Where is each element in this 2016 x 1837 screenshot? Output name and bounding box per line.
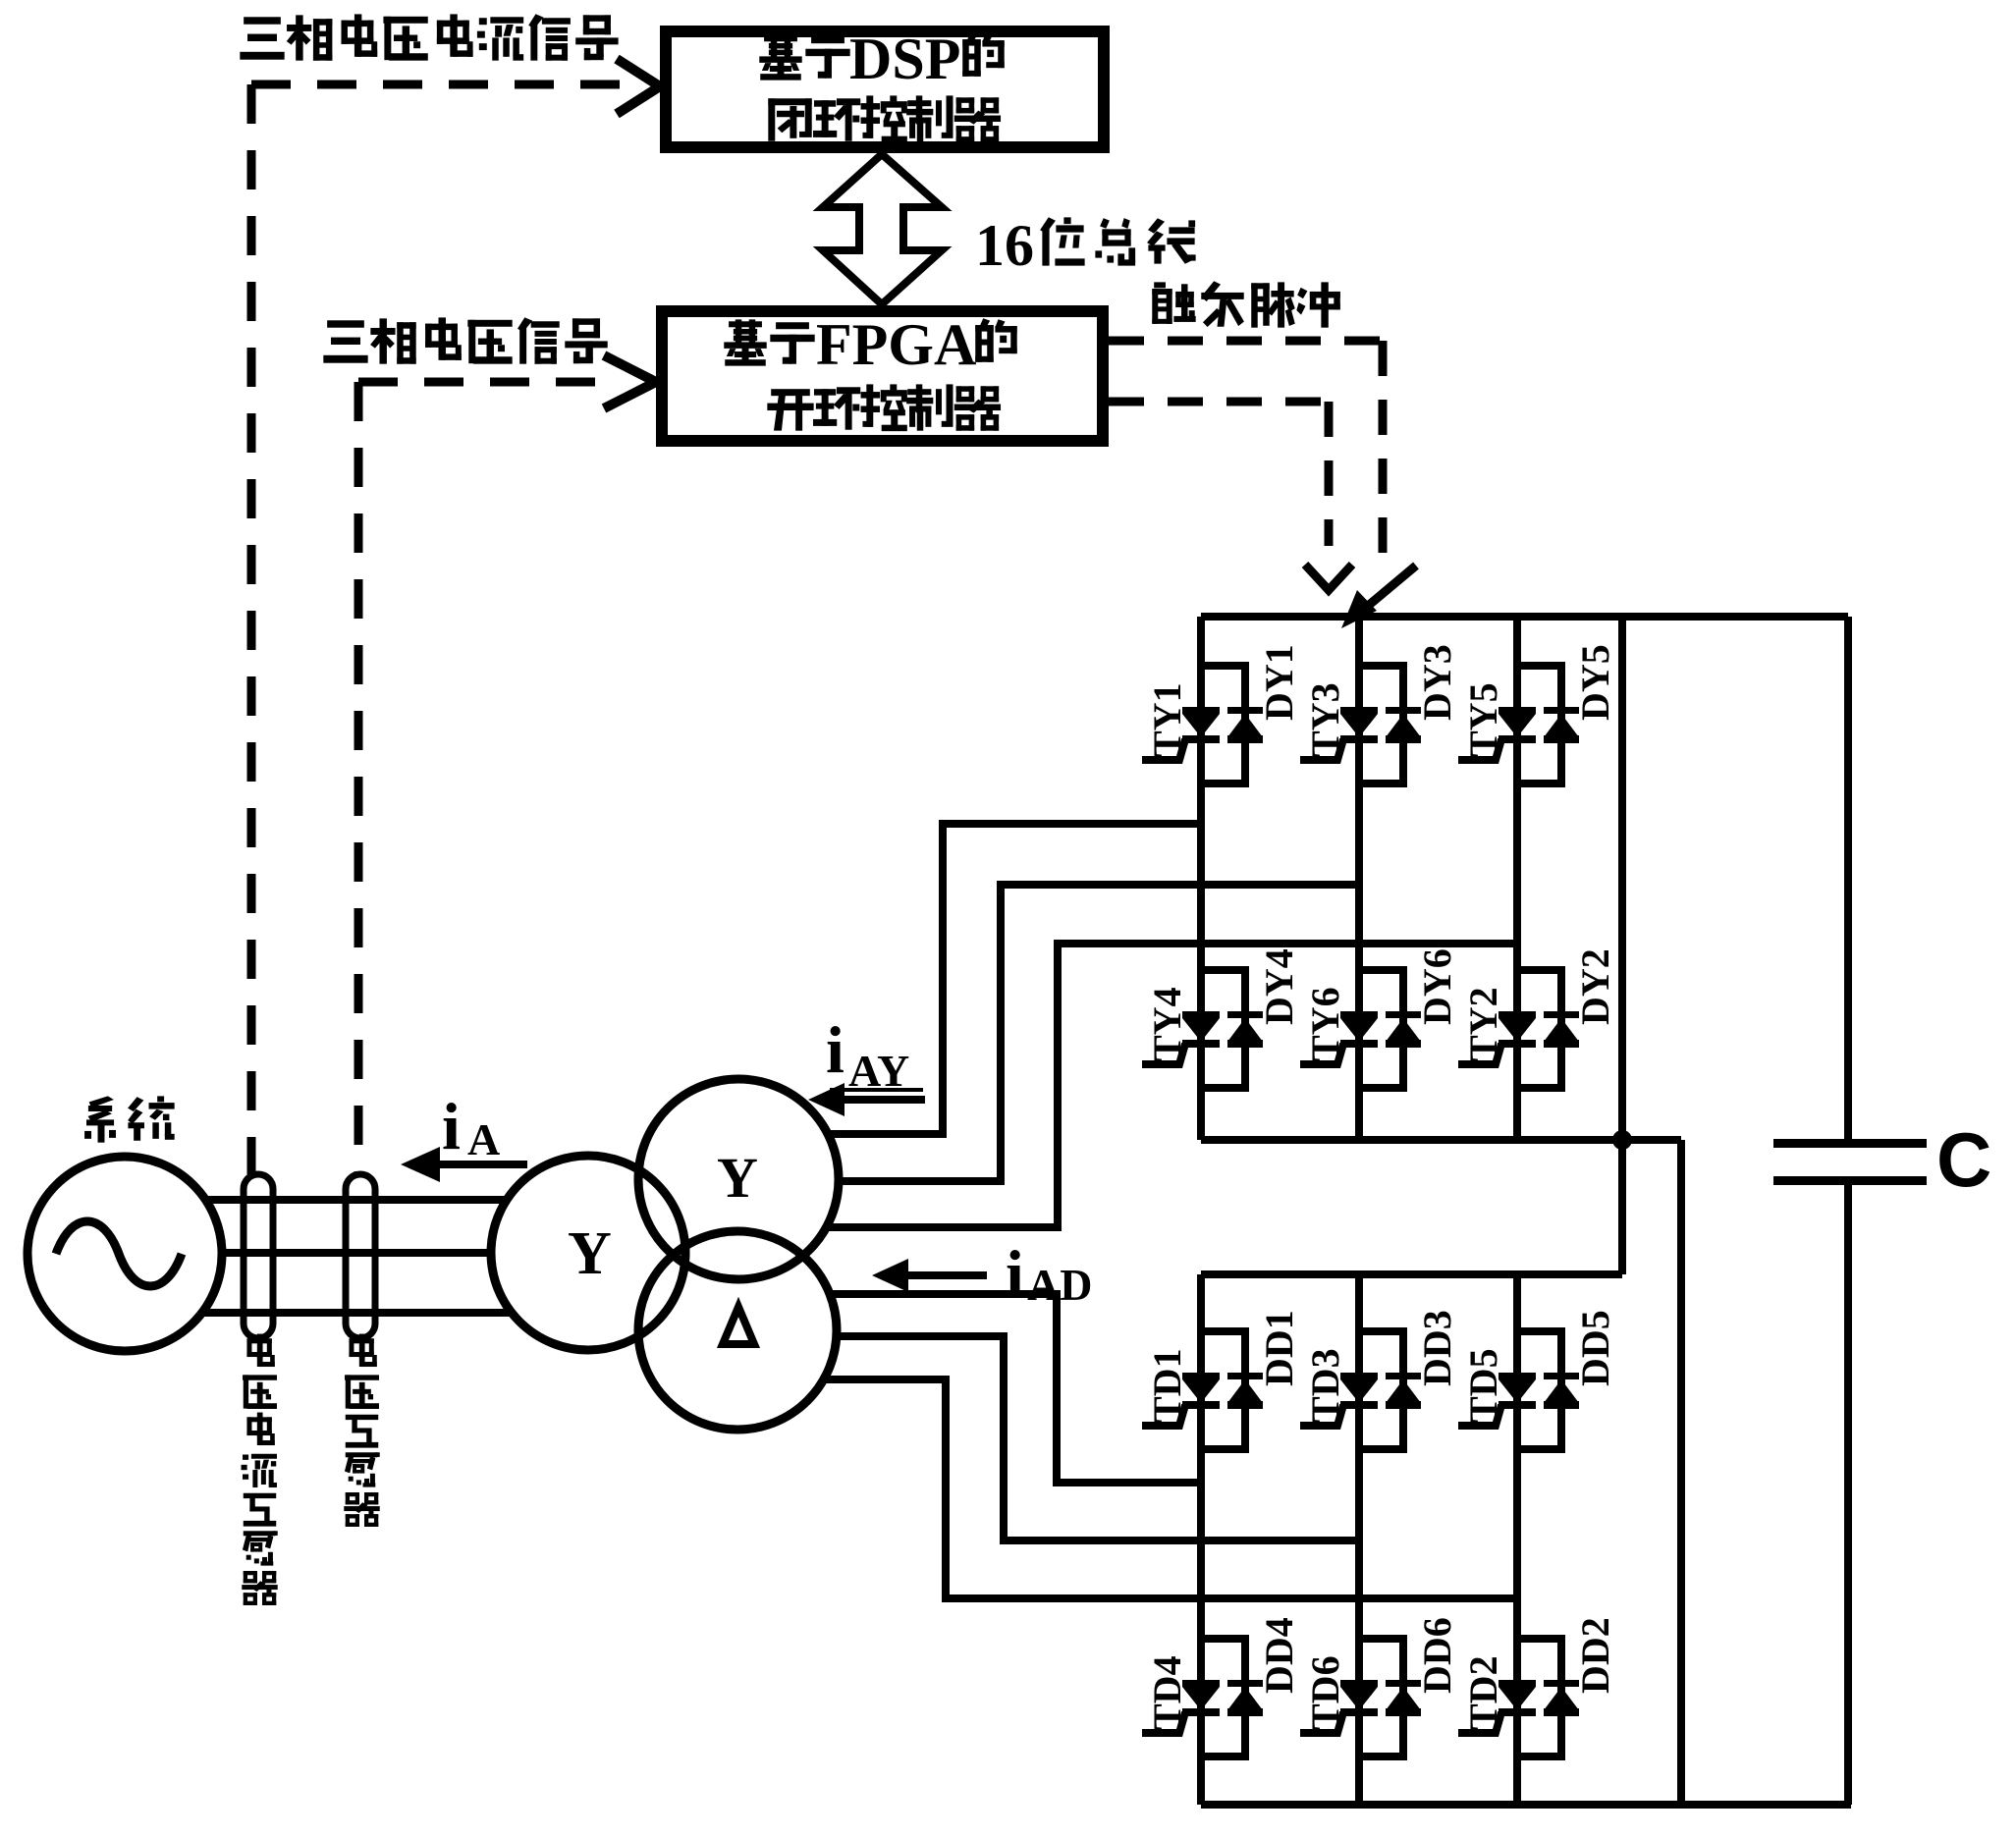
capacitor C top plate — [1773, 1139, 1927, 1148]
AC source circle — [27, 1157, 222, 1351]
arrowhead into DSP box — [617, 59, 660, 114]
label: three-phase voltage-current signal 三相电压电流信号 — [241, 15, 618, 60]
thyristor TY5 — [1458, 707, 1536, 760]
wire: phase line 1 — [205, 1196, 510, 1204]
thyristor TD4 — [1142, 1680, 1220, 1733]
svg-text:DD1: DD1 — [1257, 1310, 1301, 1386]
diode DY6 — [1386, 1011, 1421, 1048]
thyristor TY6 — [1300, 1011, 1378, 1064]
wire: antiparallel branch of TY6/DY6 — [1359, 970, 1403, 1088]
svg-text:DD4: DD4 — [1257, 1617, 1301, 1694]
svg-text:TY6: TY6 — [1303, 987, 1347, 1061]
svg-text:TD2: TD2 — [1461, 1655, 1505, 1730]
diode DY3 — [1386, 707, 1421, 743]
svg-text:AD: AD — [1027, 1260, 1092, 1310]
svg-text:DD5: DD5 — [1573, 1310, 1617, 1386]
arrowhead into FPGA box — [604, 355, 656, 408]
wire: phase A from Y winding to Y-bridge leg A — [828, 824, 1201, 1134]
svg-text:DY6: DY6 — [1415, 948, 1459, 1025]
label: 电压互感器 vertical — [345, 1334, 380, 1527]
node: junction Y-bottom bus — [1612, 1130, 1632, 1150]
wire: antiparallel branch of TD5/DD5 — [1517, 1331, 1561, 1449]
wire: phase A from delta winding to D-bridge leg A — [830, 1294, 1201, 1483]
svg-text:DD3: DD3 — [1415, 1310, 1459, 1386]
label: trigger pulse 触发脉冲 — [1153, 282, 1339, 327]
svg-text:DD6: DD6 — [1415, 1617, 1459, 1694]
bus: 16-bit bus double arrow between DSP and FPGA — [823, 154, 942, 304]
arrow iAD — [906, 1271, 987, 1279]
svg-text:C: C — [1936, 1116, 1991, 1203]
label: three-phase voltage signal 三相电压信号 — [324, 318, 607, 363]
svg-text:TY3: TY3 — [1303, 682, 1347, 757]
wire: D-bridge leg B vertical — [1355, 1274, 1363, 1805]
diode DD1 — [1227, 1373, 1263, 1409]
diode DY4 — [1227, 1011, 1263, 1048]
arrow iA — [440, 1161, 527, 1168]
svg-text:i: i — [826, 1012, 845, 1087]
transformer secondary winding Y — [638, 1079, 839, 1279]
wire: Y-bridge bottom bus — [1201, 1136, 1681, 1144]
arrowhead trigger left — [1305, 565, 1352, 590]
diode DD3 — [1386, 1373, 1421, 1409]
voltage-current instrument transformer (capsule) — [244, 1174, 273, 1338]
wire dashed: trigger pulse upper — [1109, 341, 1383, 558]
transformer primary winding Y — [491, 1156, 685, 1350]
wire: phase line 2 — [222, 1249, 493, 1257]
wire: antiparallel branch of TY1/DY1 — [1201, 666, 1245, 783]
svg-text:TY5: TY5 — [1461, 682, 1505, 757]
wire: capacitor bottom feed — [1844, 1185, 1852, 1805]
wire: antiparallel branch of TD1/DD1 — [1201, 1331, 1245, 1449]
wire: D-bridge top bus — [1201, 1270, 1622, 1278]
wire: phase line 3 — [203, 1309, 513, 1317]
svg-text:DY5: DY5 — [1573, 644, 1617, 721]
voltage instrument transformer (capsule) — [346, 1174, 375, 1338]
thyristor TD3 — [1300, 1373, 1378, 1426]
thyristor TY1 — [1142, 707, 1220, 760]
wire: antiparallel branch of TD3/DD3 — [1359, 1331, 1403, 1449]
thyristor TD1 — [1142, 1373, 1220, 1426]
wire: Y-bridge leg B vertical — [1355, 617, 1363, 1140]
wire: D-bridge leg A vertical — [1197, 1274, 1205, 1805]
wire: antiparallel branch of TY2/DY2 — [1517, 970, 1561, 1088]
svg-text:DD2: DD2 — [1573, 1617, 1617, 1694]
diode DY2 — [1544, 1011, 1579, 1048]
svg-text:DY3: DY3 — [1415, 644, 1459, 721]
wire: antiparallel branch of TD2/DD2 — [1517, 1639, 1561, 1756]
svg-text:16: 16 — [975, 213, 1034, 278]
thyristor TD5 — [1458, 1373, 1536, 1426]
wire: D-bridge bottom bus — [1201, 1801, 1851, 1809]
wire dashed: voltage/current signal to DSP controller — [251, 81, 621, 89]
wire: Y-bridge top bus to capacitor — [1201, 613, 1848, 621]
wire: phase B from delta winding to D-bridge leg B — [837, 1336, 1359, 1540]
svg-text:TD5: TD5 — [1461, 1348, 1505, 1423]
block U1: DSP closed-loop controller 基于DSP的闭环控制器 — [666, 31, 1104, 147]
svg-text:TD6: TD6 — [1303, 1655, 1347, 1730]
wire: D-bridge leg C vertical — [1513, 1274, 1521, 1805]
thyristor TY2 — [1458, 1011, 1536, 1064]
wire: antiparallel branch of TD6/DD6 — [1359, 1639, 1403, 1756]
wire: Y-bridge leg A vertical — [1197, 617, 1205, 1140]
svg-text:TY4: TY4 — [1145, 987, 1189, 1061]
label: 16位总线 — [975, 213, 1195, 278]
svg-text:A: A — [467, 1114, 500, 1164]
diode DY5 — [1544, 707, 1579, 743]
sine wave — [56, 1221, 182, 1286]
wire: phase B from Y winding to Y-bridge leg B — [839, 885, 1359, 1181]
thyristor TY4 — [1142, 1011, 1220, 1064]
svg-text:Y: Y — [568, 1220, 612, 1287]
transformer secondary winding Delta — [638, 1231, 837, 1430]
diode DY1 — [1227, 707, 1263, 743]
wire: Y-bridge leg C vertical — [1513, 617, 1521, 1140]
wire: phase C from delta winding to D-bridge leg C — [824, 1379, 1517, 1598]
wire: antiparallel branch of TD4/DD4 — [1201, 1639, 1245, 1756]
wire: Y-bridge right edge vertical — [1618, 617, 1626, 1274]
block U2: FPGA open-loop controller 基于FPGA的开环控制器 — [662, 311, 1103, 441]
svg-text:DY1: DY1 — [1257, 644, 1301, 721]
svg-text:DY2: DY2 — [1573, 948, 1617, 1025]
svg-text:DY4: DY4 — [1257, 948, 1301, 1025]
svg-text:TY2: TY2 — [1461, 987, 1505, 1061]
thyristor TD6 — [1300, 1680, 1378, 1733]
diode DD4 — [1227, 1680, 1263, 1716]
thyristor TD2 — [1458, 1680, 1536, 1733]
arrow iAY — [843, 1096, 925, 1104]
svg-text:TD4: TD4 — [1145, 1655, 1189, 1730]
wire: phase C from Y winding to Y-bridge leg C — [826, 944, 1517, 1227]
arrowhead trigger right — [1355, 566, 1416, 617]
svg-text:i: i — [1006, 1236, 1024, 1311]
thyristor TY3 — [1300, 707, 1378, 760]
svg-text:TD1: TD1 — [1145, 1348, 1189, 1423]
svg-text:DSP: DSP — [849, 27, 960, 91]
wire dashed vertical from voltage transformer — [354, 382, 363, 1174]
diode DD2 — [1544, 1680, 1579, 1716]
label: 电压电流互感器 vertical — [242, 1334, 277, 1605]
svg-text:FPGA: FPGA — [816, 312, 976, 377]
wire dashed: voltage signal to FPGA controller — [358, 378, 601, 387]
svg-text:TY1: TY1 — [1145, 682, 1189, 757]
diode DD5 — [1544, 1373, 1579, 1409]
wire: drop from Y bottom bus to D bottom bus — [1677, 1140, 1685, 1805]
diode DD6 — [1386, 1680, 1421, 1716]
wire: antiparallel branch of TY4/DY4 — [1201, 970, 1245, 1088]
capacitor C bottom plate — [1773, 1176, 1927, 1185]
svg-text:TD3: TD3 — [1303, 1348, 1347, 1423]
wire: antiparallel branch of TY3/DY3 — [1359, 666, 1403, 783]
wire: antiparallel branch of TY5/DY5 — [1517, 666, 1561, 783]
svg-text:i: i — [442, 1089, 461, 1163]
wire dashed: trigger pulse lower — [1109, 402, 1329, 546]
svg-text:Y: Y — [717, 1146, 758, 1210]
label: system 系统 — [85, 1097, 174, 1142]
wire: capacitor top feed — [1844, 617, 1852, 1139]
wire dashed vertical from voltage-current transformer — [247, 84, 256, 1174]
